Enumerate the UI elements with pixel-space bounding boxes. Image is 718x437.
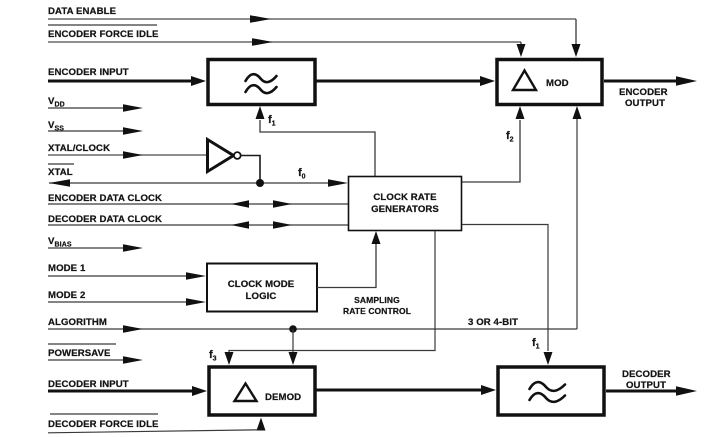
input filter box [208, 60, 315, 105]
arrow ENCODER FORCE IDLE into MOD top [517, 44, 526, 57]
wire DECODER FORCE IDLE horizontal [48, 430, 261, 433]
arrow f2 into MOD bottom [516, 106, 525, 119]
MOD delta symbol [513, 71, 536, 91]
arrow VDD [123, 104, 143, 112]
svg-text:ENCODER: ENCODER [619, 87, 668, 98]
svg-text:DECODER FORCE IDLE: DECODER FORCE IDLE [48, 419, 159, 430]
svg-text:DATA ENABLE: DATA ENABLE [48, 6, 117, 17]
svg-text:CLOCK RATE: CLOCK RATE [373, 192, 437, 203]
wire MODE 1 [48, 275, 192, 277]
svg-text:XTAL: XTAL [48, 167, 73, 178]
wire POWERSAVE [48, 359, 130, 361]
wire VBIAS [48, 247, 130, 249]
arrow MODE 2 into clock mode logic [186, 298, 206, 306]
wire MODE 2 [48, 301, 192, 303]
arrow DECODER INPUT into DEMOD [192, 386, 207, 396]
arrow sampling rate control into clock rate generators bottom [372, 231, 381, 244]
svg-text:GENERATORS: GENERATORS [371, 204, 439, 215]
svg-text:XTAL/CLOCK: XTAL/CLOCK [48, 143, 110, 154]
svg-text:LOGIC: LOGIC [246, 291, 277, 302]
svg-text:ENCODER INPUT: ENCODER INPUT [48, 67, 129, 78]
svg-text:3 OR 4-BIT: 3 OR 4-BIT [468, 317, 518, 328]
op MOD box U2 [497, 60, 602, 105]
arrow DECODER DATA CLOCK left [231, 221, 249, 228]
wire XTAL f0 line [49, 182, 334, 184]
svg-text:ALGORITHM: ALGORITHM [48, 317, 107, 328]
arrow ENCODER DATA CLOCK left [231, 200, 249, 207]
arrow f1 into filter bottom [256, 106, 265, 119]
overline ENCODER FORCE IDLE [48, 24, 157, 26]
wire f2 from clock rate generators to MOD [462, 120, 520, 182]
wire ALGORITHM branch down to DEMOD [292, 329, 294, 354]
arrow POWERSAVE [123, 356, 143, 364]
DEMOD delta symbol [235, 384, 257, 402]
svg-text:ENCODER FORCE IDLE: ENCODER FORCE IDLE [48, 29, 159, 40]
arrow f0 into clock rate generators [328, 179, 348, 187]
input filter symbol [246, 74, 277, 93]
arrow ENCODER INPUT into filter [191, 76, 206, 86]
arrow f3 into DEMOD top [225, 352, 234, 365]
arrow VSS [123, 127, 143, 135]
arrow DECODER FORCE IDLE into DEMOD bottom [257, 418, 266, 431]
arrow f1 into output filter top [544, 352, 553, 365]
wire DECODER DATA CLOCK [48, 224, 348, 226]
wire MOD output thick [604, 80, 678, 83]
svg-text:MODE 2: MODE 2 [48, 290, 85, 301]
arrow ENCODER DATA CLOCK right [273, 200, 292, 207]
svg-text:DEMOD: DEMOD [265, 392, 301, 403]
clock rate generators box [349, 177, 462, 231]
wire ALGORITHM vertical up to MOD [576, 118, 578, 329]
wire DEMOD to output filter thick [315, 389, 482, 392]
svg-text:MOD: MOD [546, 78, 569, 89]
wire VDD [48, 107, 130, 109]
arrow ENCODER OUTPUT [676, 76, 697, 85]
arrow DATA ENABLE mid [250, 15, 271, 23]
inverter bubble [234, 152, 241, 159]
wire VSS [48, 130, 130, 132]
clock mode logic box [207, 264, 317, 312]
svg-text:POWERSAVE: POWERSAVE [48, 348, 111, 359]
svg-text:ENCODER DATA CLOCK: ENCODER DATA CLOCK [48, 193, 162, 204]
svg-text:OUTPUT: OUTPUT [625, 98, 665, 109]
overline XTAL [48, 163, 74, 165]
wire DATA ENABLE vertical into MOD [575, 19, 577, 45]
overline POWERSAVE [48, 343, 116, 345]
inverter U1 [208, 140, 234, 172]
output filter box [498, 367, 604, 415]
wire ENCODER FORCE IDLE vertical into MOD [520, 42, 522, 46]
output filter symbol [530, 382, 566, 402]
svg-text:DECODER INPUT: DECODER INPUT [48, 379, 129, 390]
arrow XTAL/CLOCK mid [123, 151, 143, 159]
node XTAL junction [256, 179, 264, 187]
arrow DATA ENABLE into MOD top [572, 44, 581, 57]
svg-text:SAMPLING: SAMPLING [354, 295, 400, 305]
svg-text:OUTPUT: OUTPUT [626, 380, 666, 391]
wire f1 from clock rate generators to filter [260, 120, 375, 176]
arrow ALGORITHM mid [123, 325, 143, 333]
arrow into output filter left [481, 385, 496, 395]
wire inverter output [241, 156, 261, 184]
wire DECODER INPUT thick [48, 390, 193, 393]
arrow ALGORITHM into DEMOD top [289, 352, 298, 365]
wire DECODER FORCE IDLE vertical [260, 427, 262, 430]
svg-text:DECODER: DECODER [622, 369, 671, 380]
wire ENCODER INPUT thick [48, 80, 192, 83]
arrow MODE 1 into clock mode logic [186, 272, 206, 280]
wire DATA ENABLE horizontal [48, 18, 576, 20]
overline DECODER FORCE IDLE [50, 413, 158, 415]
arrow XTAL out left [49, 179, 70, 187]
wire ENCODER DATA CLOCK [48, 203, 348, 205]
wire filter to MOD thick [316, 80, 481, 83]
op DEMOD box [209, 367, 315, 415]
arrow DECODER OUTPUT [676, 386, 697, 395]
arrow ENCODER FORCE IDLE mid [252, 38, 273, 46]
wire output filter to DECODER OUTPUT thick [606, 390, 680, 393]
wire f3 from clock rate generators to DEMOD [229, 231, 435, 354]
svg-text:DECODER DATA CLOCK: DECODER DATA CLOCK [48, 214, 162, 225]
arrow DECODER DATA CLOCK right [273, 221, 292, 228]
arrow into MOD left [480, 76, 495, 86]
arrow ALGORITHM into MOD bottom [573, 106, 582, 119]
wire sampling rate control [317, 244, 376, 288]
wire ENCODER FORCE IDLE horizontal [48, 41, 521, 43]
svg-text:CLOCK MODE: CLOCK MODE [228, 279, 295, 290]
wire ALGORITHM horizontal [48, 328, 577, 330]
node ALGORITHM junction [289, 325, 297, 333]
svg-text:RATE CONTROL: RATE CONTROL [343, 306, 411, 316]
wire f1 lower from clock rate generators to output filter [462, 225, 548, 352]
arrow VBIAS [123, 244, 143, 252]
wire XTAL/CLOCK [48, 154, 207, 156]
svg-text:MODE 1: MODE 1 [48, 263, 86, 274]
